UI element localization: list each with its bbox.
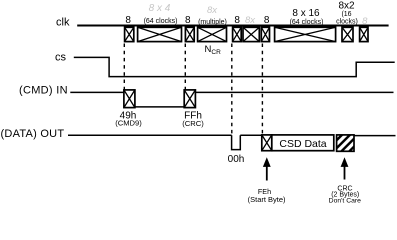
label FEh: [258, 187, 271, 196]
svg-text:clk: clk: [56, 16, 70, 28]
clk burst box 7: [261, 27, 269, 41]
(CMD) IN label: [19, 85, 68, 97]
cmd byte box 49h: [124, 90, 135, 108]
label 8 (burst 3): [185, 15, 191, 26]
cmd wire low middle: [135, 106, 184, 108]
label 8x2 (burst 9): [338, 1, 355, 12]
data byte box FEh: [262, 135, 272, 151]
svg-text:8x2: 8x2: [338, 1, 355, 12]
label 8 (burst 7): [264, 15, 270, 26]
svg-text:8x: 8x: [207, 5, 218, 16]
svg-text:8: 8: [125, 15, 131, 26]
grey label 8 (burst 10): [362, 16, 368, 27]
svg-text:(CMD) IN: (CMD) IN: [19, 85, 68, 97]
grey label 8 x 4: [149, 3, 171, 14]
label FFh: [184, 110, 202, 121]
cmd byte box FFh: [184, 90, 195, 108]
clk burst box 8: [275, 27, 336, 41]
svg-text:(64 clocks): (64 clocks): [144, 18, 178, 25]
dashed marker line 4: [261, 44, 263, 134]
svg-text:clocks): clocks): [336, 18, 358, 25]
clk burst box 6: [243, 27, 259, 41]
svg-text:(DATA) OUT: (DATA) OUT: [1, 128, 65, 140]
data box CSD Data: [272, 135, 334, 151]
label (Start Byte): [248, 195, 286, 204]
label (CRC): [182, 119, 204, 128]
svg-text:(CRC): (CRC): [182, 119, 204, 128]
svg-text:8 x 16: 8 x 16: [292, 8, 320, 19]
label (multiple) burst 4: [198, 19, 227, 26]
label CRC: [337, 185, 352, 192]
svg-text:CSD Data: CSD Data: [279, 138, 326, 150]
data 00h dip wire: [232, 135, 241, 149]
label clocks) burst 9: [336, 18, 358, 25]
label (2 Bytes): [331, 191, 359, 198]
svg-text:cs: cs: [55, 52, 67, 64]
label 8 (burst 5): [234, 15, 240, 26]
clk burst box 1: [125, 27, 134, 41]
cmd wire high right: [195, 91, 393, 93]
dashed marker line 2: [184, 44, 186, 90]
data wire right: [354, 135, 396, 137]
label Don't Care: [329, 198, 361, 205]
clk burst box 2: [138, 27, 182, 41]
svg-text:(16: (16: [341, 11, 351, 18]
svg-text:8: 8: [362, 16, 368, 27]
arrow FEh: [263, 157, 271, 180]
label 49h: [120, 110, 137, 121]
svg-text:8: 8: [234, 15, 240, 26]
label (CMD9): [115, 118, 142, 127]
data wire left: [68, 134, 232, 136]
label 00h: [228, 154, 245, 165]
cs label: [55, 52, 67, 64]
label 8 (burst 1): [125, 15, 131, 26]
grey label 8x (burst 6): [245, 15, 256, 26]
svg-text:8x: 8x: [245, 15, 256, 26]
clk burst box 10: [360, 27, 368, 41]
clk burst box 9: [342, 27, 353, 41]
(DATA) OUT label: [1, 128, 65, 140]
svg-text:00h: 00h: [228, 154, 245, 165]
label (16 burst 9: [341, 11, 351, 18]
cmd wire high left: [70, 91, 124, 93]
svg-text:(CMD9): (CMD9): [115, 118, 142, 127]
arrow CRC: [341, 157, 349, 179]
clk burst box 4 (NCR): [198, 27, 227, 41]
dashed marker line 1: [123, 44, 125, 90]
data box CRC hatched: [337, 135, 354, 151]
clk label: [56, 16, 70, 28]
clk wire: [77, 25, 388, 27]
grey label 8x (burst 4): [207, 5, 218, 16]
label (64 clocks) burst 2: [144, 18, 178, 25]
cs wire: [74, 57, 395, 76]
svg-text:8: 8: [185, 15, 191, 26]
svg-text:8: 8: [264, 15, 270, 26]
data wire mid: [240, 134, 261, 136]
clk burst box 5: [233, 27, 242, 41]
clk burst box 3: [185, 27, 194, 41]
svg-text:8 x 4: 8 x 4: [149, 3, 171, 14]
dashed marker line 3: [231, 44, 233, 134]
svg-text:NCR: NCR: [205, 44, 222, 56]
label NCR: [205, 44, 222, 56]
svg-text:(Start Byte): (Start Byte): [248, 195, 286, 204]
label (64 clocks) burst 8: [290, 19, 324, 26]
svg-text:(64 clocks): (64 clocks): [290, 19, 324, 26]
label 8 x 16 (burst 8): [292, 8, 320, 19]
svg-text:Don't Care: Don't Care: [329, 198, 361, 205]
svg-text:(multiple): (multiple): [198, 19, 227, 26]
